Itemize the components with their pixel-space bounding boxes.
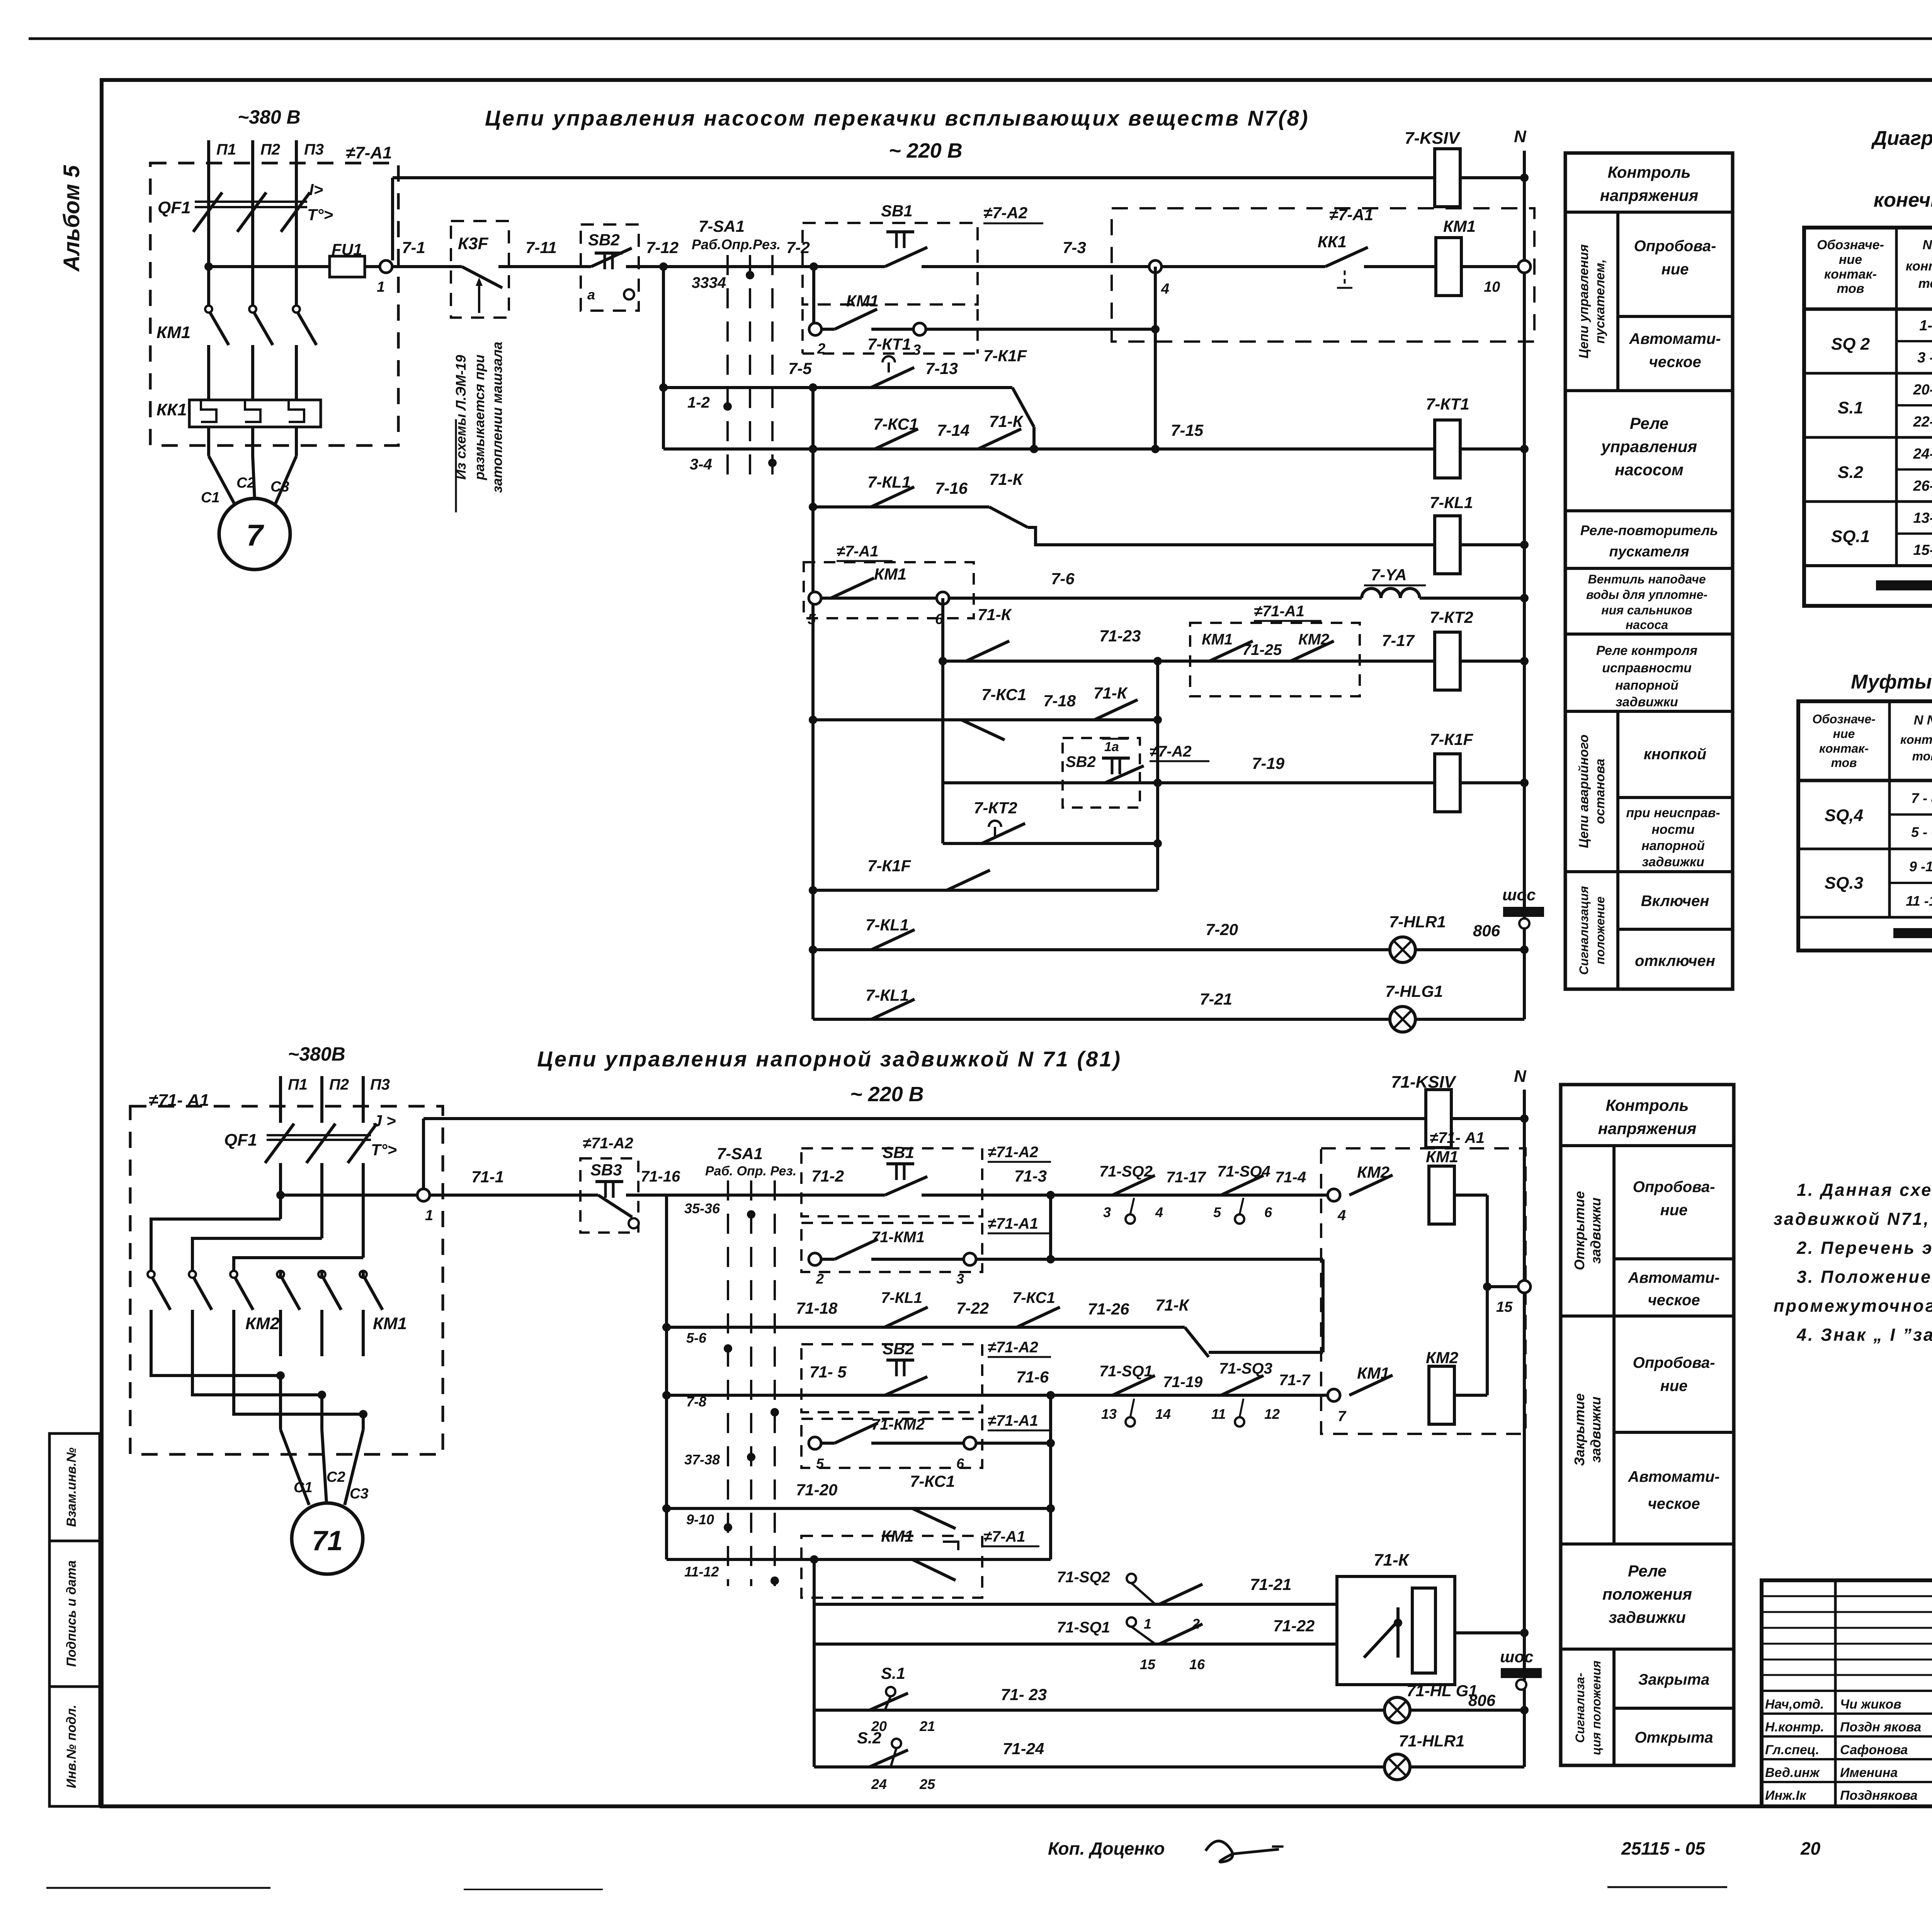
svg-text:12: 12 bbox=[1264, 1406, 1280, 1422]
cell Автоматическое закрытие bbox=[1561, 1542, 1734, 1546]
svg-text:≠71-А1: ≠71-А1 bbox=[1254, 603, 1304, 620]
node 4 bus vertical bbox=[1154, 267, 1157, 449]
svg-text:3 - 4: 3 - 4 bbox=[1917, 350, 1932, 366]
svg-text:тов: тов bbox=[1912, 749, 1932, 763]
svg-text:ния сальников: ния сальников bbox=[1601, 603, 1692, 617]
svg-text:задвижки: задвижки bbox=[1642, 855, 1704, 869]
cell Включен bbox=[1618, 928, 1733, 931]
svg-text:1: 1 bbox=[377, 279, 385, 295]
svg-text:QF1: QF1 bbox=[158, 198, 191, 217]
svg-text:N N: N N bbox=[1914, 713, 1932, 728]
svg-text:9-10: 9-10 bbox=[686, 1512, 714, 1527]
svg-text:КМ1: КМ1 bbox=[1202, 631, 1233, 648]
svg-text:71-КМ1: 71-КМ1 bbox=[871, 1229, 925, 1246]
dashed enclosure ≠7-A1 right bbox=[1112, 208, 1534, 342]
svg-text:конечных выключателей задв: конечных выключателей задвижки bbox=[1874, 189, 1932, 211]
tap from QF1 to node1 bbox=[281, 1194, 417, 1197]
wire row I KM1 interlock bbox=[667, 1558, 1051, 1561]
svg-text:≠71-А2: ≠71-А2 bbox=[988, 1339, 1038, 1356]
svg-text:Сигнализация: Сигнализация bbox=[1577, 886, 1591, 975]
svg-text:71-НLR1: 71-НLR1 bbox=[1399, 1732, 1464, 1750]
svg-text:7-12: 7-12 bbox=[646, 238, 679, 257]
svg-text:размыкается при: размыкается при bbox=[471, 355, 487, 481]
svg-text:Коп. Доценко: Коп. Доценко bbox=[1048, 1838, 1165, 1859]
svg-text:21: 21 bbox=[919, 1718, 935, 1734]
svg-text:71-К: 71-К bbox=[989, 412, 1024, 430]
svg-text:6: 6 bbox=[1264, 1204, 1272, 1220]
svg-text:задвижки: задвижки bbox=[1588, 1197, 1604, 1263]
svg-text:10: 10 bbox=[1484, 279, 1500, 295]
svg-text:Закрыта: Закрыта bbox=[1638, 1671, 1710, 1688]
row 5-6 KM1 to valve solenoid bbox=[813, 597, 989, 600]
svg-text:7-КТ1: 7-КТ1 bbox=[1426, 395, 1469, 413]
svg-text:71-К: 71-К bbox=[1155, 1296, 1190, 1314]
svg-text:71-SQ3: 71-SQ3 bbox=[1219, 1360, 1272, 1377]
wire row 7-19 emergency stop bbox=[943, 781, 1434, 784]
svg-text:71-23: 71-23 bbox=[1099, 627, 1141, 645]
page border top line bbox=[29, 37, 1932, 40]
phase stub П2 bbox=[251, 140, 254, 197]
svg-text:SB2: SB2 bbox=[1066, 753, 1096, 770]
table1 outline bbox=[1804, 228, 1932, 606]
svg-text:7-KSIV: 7-KSIV bbox=[1405, 129, 1461, 148]
cell Вентиль на подаче воды bbox=[1565, 633, 1733, 636]
left bus bottom schematic bbox=[665, 1195, 668, 1559]
svg-text:7: 7 bbox=[246, 518, 264, 552]
svg-text:71-18: 71-18 bbox=[796, 1299, 838, 1317]
link vertical x2719 rows F-I bbox=[1049, 1395, 1052, 1559]
cell Автоматическое открытие bbox=[1561, 1314, 1734, 1318]
svg-text:71-SQ1: 71-SQ1 bbox=[1099, 1363, 1153, 1380]
left bus2 vertical x2104 bbox=[811, 388, 815, 1019]
svg-text:3-4: 3-4 bbox=[690, 456, 712, 473]
svg-text:напорной: напорной bbox=[1615, 678, 1679, 693]
svg-text:воды для уплотне-: воды для уплотне- bbox=[1586, 588, 1708, 602]
svg-text:~ 220 В: ~ 220 В bbox=[850, 1083, 924, 1106]
svg-text:SВ1: SВ1 bbox=[883, 1143, 914, 1161]
signal bus vertical x2107 bbox=[813, 1559, 816, 1767]
svg-text:71-К: 71-К bbox=[1094, 684, 1128, 702]
svg-text:С2: С2 bbox=[327, 1469, 345, 1485]
wire row 7-K1F lower bbox=[809, 886, 817, 894]
phase stub П3 bbox=[295, 140, 298, 197]
svg-text:SB2: SB2 bbox=[588, 231, 620, 249]
node 2 bbox=[809, 323, 821, 335]
push button SB1 in dashed box ≠7-A2 bbox=[803, 223, 978, 304]
node 3 bbox=[913, 323, 926, 335]
svg-text:ние: ние bbox=[1833, 727, 1855, 741]
svg-text:71-17: 71-17 bbox=[1166, 1169, 1206, 1186]
svg-text:71-3: 71-3 bbox=[1014, 1167, 1047, 1185]
svg-text:2: 2 bbox=[816, 1271, 824, 1287]
svg-text:Взам.инв.№: Взам.инв.№ bbox=[64, 1447, 79, 1527]
bus from node 2 region vertical bbox=[812, 267, 815, 329]
svg-text:ческое: ческое bbox=[1649, 354, 1701, 371]
svg-text:71-1: 71-1 bbox=[471, 1168, 504, 1186]
svg-text:Открыта: Открыта bbox=[1634, 1729, 1713, 1746]
svg-text:14: 14 bbox=[1155, 1406, 1171, 1422]
svg-text:исправности: исправности bbox=[1602, 661, 1692, 675]
svg-text:Диаграммы: Диаграммы bbox=[1871, 127, 1932, 150]
svg-text:Автомати-: Автомати- bbox=[1628, 1269, 1719, 1286]
svg-text:7 - 8: 7 - 8 bbox=[1911, 790, 1932, 806]
dashed enclosure ≠7-A1 motor branch bbox=[150, 163, 398, 446]
svg-text:1- 2: 1- 2 bbox=[1919, 318, 1932, 334]
svg-text:–: – bbox=[1271, 1832, 1284, 1858]
svg-text:7-КL1: 7-КL1 bbox=[866, 916, 909, 934]
svg-text:Открытие: Открытие bbox=[1571, 1191, 1587, 1270]
svg-text:71-26: 71-26 bbox=[1088, 1300, 1129, 1318]
svg-text:71-2: 71-2 bbox=[811, 1167, 844, 1185]
table2 legend row bbox=[1798, 916, 1932, 919]
svg-text:N: N bbox=[1514, 127, 1527, 146]
svg-text:13-14: 13-14 bbox=[1913, 510, 1932, 526]
cell Закрыта bbox=[1614, 1707, 1734, 1710]
svg-text:Автомати-: Автомати- bbox=[1628, 1468, 1719, 1485]
svg-text:КМ2: КМ2 bbox=[245, 1314, 280, 1333]
svg-text:71-НL G1: 71-НL G1 bbox=[1406, 1682, 1478, 1700]
svg-text:насоса: насоса bbox=[1626, 618, 1668, 632]
svg-text:3: 3 bbox=[913, 342, 921, 358]
svg-text:7-16: 7-16 bbox=[935, 479, 968, 497]
svg-text:затоплении машзала: затоплении машзала bbox=[489, 342, 505, 493]
svg-text:П2: П2 bbox=[329, 1076, 349, 1093]
wire row L 71-23 closed lamp bbox=[814, 1709, 1524, 1712]
svg-text:7-14: 7-14 bbox=[937, 421, 969, 439]
riser from node 1 to upper bus bbox=[391, 178, 394, 260]
motor leads bottom bbox=[279, 1376, 282, 1430]
wire row 7-KT2 button bbox=[943, 842, 1158, 845]
push button SB2 1a in dashed box bbox=[1063, 738, 1140, 808]
svg-text:16: 16 bbox=[1189, 1656, 1205, 1672]
wire row A to selector bbox=[663, 265, 814, 268]
wire row M 71-24 open lamp bbox=[814, 1765, 1524, 1768]
svg-text:шос: шос bbox=[1500, 1648, 1533, 1666]
phase stubs bottom П1 П2 П3 bbox=[279, 1076, 282, 1123]
svg-text:Цепи управления напорной: Цепи управления напорной задвижкой N 71 … bbox=[537, 1047, 1122, 1071]
svg-text:≠71- А1: ≠71- А1 bbox=[149, 1091, 209, 1110]
svg-text:контак-: контак- bbox=[1824, 267, 1877, 282]
svg-text:SВ2: SВ2 bbox=[883, 1340, 914, 1358]
svg-text:тов: тов bbox=[1918, 276, 1932, 291]
svg-text:9 -10: 9 -10 bbox=[1909, 859, 1932, 874]
dashed box KM1 5-6 bbox=[804, 562, 974, 618]
margin stamp box Подпись и дата bbox=[49, 1541, 100, 1687]
node 4 on row A bbox=[1149, 260, 1162, 273]
cell Опробование 1 bbox=[1618, 315, 1733, 318]
dashed enclosure ≠71-A1 motor branch bbox=[130, 1106, 443, 1454]
svg-text:С3: С3 bbox=[270, 479, 289, 495]
svg-text:7-2: 7-2 bbox=[786, 238, 810, 257]
svg-text:Поздн якова: Поздн якова bbox=[1840, 1720, 1921, 1734]
svg-text:7-YA: 7-YA bbox=[1371, 566, 1407, 584]
motor M 71 bbox=[292, 1503, 363, 1574]
svg-text:SQ.3: SQ.3 bbox=[1825, 874, 1863, 893]
svg-text:806: 806 bbox=[1473, 922, 1500, 940]
svg-text:3: 3 bbox=[956, 1271, 964, 1287]
svg-text:КМ1: КМ1 bbox=[846, 292, 879, 310]
dashed box ≠71-A1 KM1 KM2 bbox=[1190, 623, 1360, 696]
svg-text:7-КС1: 7-КС1 bbox=[1012, 1289, 1055, 1306]
svg-text:35-36: 35-36 bbox=[684, 1201, 720, 1216]
svg-text:Вентиль наподаче: Вентиль наподаче bbox=[1588, 572, 1706, 586]
svg-text:П2: П2 bbox=[260, 141, 280, 158]
push button SB3 in dashed box bbox=[580, 1158, 638, 1233]
svg-text:SQ 2: SQ 2 bbox=[1831, 335, 1870, 354]
node 7 bbox=[1328, 1389, 1340, 1401]
svg-text:71-SQ1: 71-SQ1 bbox=[1057, 1619, 1110, 1636]
table1 sub row lines bbox=[1896, 340, 1932, 342]
svg-text:задвижки: задвижки bbox=[1609, 1608, 1686, 1626]
svg-text:S.2: S.2 bbox=[857, 1729, 881, 1747]
rotated cell Цепи аварийного останова bbox=[1616, 711, 1619, 872]
svg-text:S.2: S.2 bbox=[1838, 463, 1864, 482]
svg-text:контак-: контак- bbox=[1819, 741, 1869, 755]
svg-text:71-24: 71-24 bbox=[1003, 1740, 1044, 1758]
cell Опробование открытие bbox=[1614, 1257, 1734, 1260]
svg-text:7-К1F: 7-К1F bbox=[867, 857, 912, 875]
rotated cell Открытие задвижки bbox=[1612, 1146, 1616, 1316]
svg-text:Гл.спец.: Гл.спец. bbox=[1765, 1743, 1819, 1757]
svg-text:Опробова-: Опробова- bbox=[1633, 1354, 1715, 1371]
svg-text:7-КL1: 7-КL1 bbox=[881, 1289, 922, 1306]
svg-text:71-22: 71-22 bbox=[1273, 1617, 1315, 1635]
svg-text:71-SQ2: 71-SQ2 bbox=[1099, 1163, 1153, 1180]
svg-text:20: 20 bbox=[1800, 1838, 1821, 1859]
svg-text:~ 220 В: ~ 220 В bbox=[889, 139, 963, 162]
svg-text:КМ1: КМ1 bbox=[881, 1527, 913, 1545]
dashed box KM1 row I bbox=[801, 1536, 982, 1598]
svg-text:ческое: ческое bbox=[1648, 1292, 1700, 1309]
svg-text:SB3: SB3 bbox=[590, 1161, 622, 1179]
svg-text:напорной: напорной bbox=[1641, 838, 1705, 853]
cell Реле положения задвижки bbox=[1561, 1648, 1734, 1651]
wire row 7-20 lamp red bbox=[809, 945, 817, 954]
table1 group separators bbox=[1804, 372, 1932, 375]
phase stub П1 bbox=[207, 140, 210, 197]
svg-text:ние: ние bbox=[1660, 1377, 1688, 1394]
node 5 bottom bbox=[809, 1437, 821, 1449]
wire 71-1 to SB3 bbox=[430, 1194, 580, 1197]
svg-text:7-К1F: 7-К1F bbox=[1430, 730, 1474, 748]
node 15 bbox=[1518, 1280, 1531, 1293]
table1 column lines bbox=[1895, 228, 1898, 566]
svg-text:6: 6 bbox=[956, 1456, 964, 1471]
node 1 bottom bbox=[417, 1189, 430, 1201]
svg-text:NN: NN bbox=[1922, 238, 1932, 252]
svg-text:≠71-А1: ≠71-А1 bbox=[988, 1412, 1038, 1429]
svg-text:тов: тов bbox=[1837, 281, 1864, 296]
svg-text:7-11: 7-11 bbox=[526, 238, 557, 257]
svg-text:7: 7 bbox=[1338, 1408, 1347, 1425]
svg-text:7-КТ1: 7-КТ1 bbox=[867, 335, 911, 353]
svg-text:Автомати-: Автомати- bbox=[1629, 330, 1721, 347]
function column top outline bbox=[1565, 153, 1733, 989]
node 6 bbox=[937, 592, 949, 604]
svg-text:2. Перечень элементов привед: 2. Перечень элементов приведен на один н… bbox=[1796, 1238, 1932, 1258]
svg-text:71-25: 71-25 bbox=[1242, 641, 1282, 658]
svg-text:7-КС1: 7-КС1 bbox=[981, 685, 1026, 704]
coil link vertical to node 15 bbox=[1486, 1195, 1489, 1395]
cell Контроль напряжения 2 bbox=[1561, 1144, 1734, 1147]
svg-text:7-НLR1: 7-НLR1 bbox=[1389, 913, 1446, 931]
wire row 7-18 bbox=[809, 716, 817, 724]
svg-text:Реле-повторитель: Реле-повторитель bbox=[1580, 522, 1718, 538]
rotated cell Цепи управления пускателем bbox=[1616, 212, 1619, 391]
svg-text:7-КL1: 7-КL1 bbox=[867, 473, 911, 491]
wire row B upper bus bottom schematic bbox=[423, 1117, 1426, 1120]
overvoltage relay contact K3F in dashed box bbox=[451, 221, 509, 318]
svg-text:ности: ности bbox=[1651, 822, 1694, 837]
svg-text:7-6: 7-6 bbox=[1051, 570, 1075, 588]
svg-text:≠71- А1: ≠71- А1 bbox=[1430, 1129, 1485, 1146]
cell Реле контроля исправности bbox=[1565, 710, 1733, 713]
svg-text:С1: С1 bbox=[201, 490, 220, 506]
svg-text:Реле контроля: Реле контроля bbox=[1596, 643, 1697, 658]
wire row C open valve bbox=[667, 1194, 885, 1197]
wire row 7-17 valve check relay bbox=[939, 657, 947, 665]
svg-text:Позднякова: Позднякова bbox=[1840, 1788, 1918, 1803]
svg-text:Обозначе-: Обозначе- bbox=[1812, 712, 1876, 726]
svg-text:≠7-A1: ≠7-A1 bbox=[1329, 206, 1373, 224]
upper bus to 7-KSIV bbox=[393, 176, 1434, 179]
svg-text:Сигнализа-: Сигнализа- bbox=[1573, 1673, 1587, 1743]
wire row 3-4 / 7-14 / 7-15 bbox=[663, 447, 1434, 451]
cell Контроль напряжения bbox=[1565, 211, 1733, 214]
svg-text:Инв.№ подл.: Инв.№ подл. bbox=[64, 1705, 79, 1789]
rotated cell Закрытие задвижки bbox=[1612, 1316, 1616, 1544]
svg-text:13: 13 bbox=[1101, 1406, 1117, 1422]
svg-text:11-12: 11-12 bbox=[684, 1564, 719, 1580]
svg-text:КМ1: КМ1 bbox=[373, 1314, 407, 1333]
svg-text:QF1: QF1 bbox=[224, 1131, 257, 1150]
motor leads to motor 7 bbox=[209, 456, 236, 506]
svg-text:71-16: 71-16 bbox=[641, 1168, 680, 1185]
svg-text:5: 5 bbox=[1213, 1204, 1221, 1220]
svg-text:4: 4 bbox=[1155, 1204, 1163, 1220]
table2 column lines bbox=[1888, 701, 1891, 917]
svg-text:7-13: 7-13 bbox=[925, 359, 958, 377]
svg-text:1: 1 bbox=[1144, 1616, 1151, 1632]
wire row K 71-22 bbox=[814, 1643, 1337, 1646]
svg-text:Подпись и дата: Подпись и дата bbox=[64, 1560, 79, 1667]
svg-text:15: 15 bbox=[1496, 1299, 1513, 1315]
wire row J 71-21 bbox=[814, 1603, 1337, 1606]
svg-text:ние: ние bbox=[1660, 1202, 1688, 1219]
svg-text:а: а bbox=[587, 287, 595, 303]
svg-text:7-SA1: 7-SA1 bbox=[699, 217, 745, 235]
svg-text:пускателем,: пускателем, bbox=[1593, 259, 1607, 343]
svg-text:Раб. Опр. Рез.: Раб. Опр. Рез. bbox=[705, 1164, 796, 1178]
svg-text:7-20: 7-20 bbox=[1206, 920, 1238, 939]
left bus from 7-12 vertical bbox=[662, 267, 665, 449]
svg-text:К3F: К3F bbox=[458, 234, 489, 253]
svg-text:71-20: 71-20 bbox=[796, 1481, 837, 1499]
node 4 bottom bbox=[1328, 1189, 1340, 1201]
svg-text:≠71-А2: ≠71-А2 bbox=[988, 1144, 1038, 1161]
table2 outline bbox=[1798, 701, 1932, 951]
svg-text:Включен: Включен bbox=[1641, 893, 1709, 910]
svg-text:5 - 6: 5 - 6 bbox=[1911, 824, 1932, 840]
svg-text:71-4: 71-4 bbox=[1275, 1169, 1306, 1186]
svg-text:Опробова-: Опробова- bbox=[1634, 238, 1716, 255]
svg-text:11: 11 bbox=[1211, 1406, 1226, 1422]
svg-text:25115 - 05: 25115 - 05 bbox=[1621, 1838, 1706, 1859]
wire row 1-2 / 7-5 bbox=[663, 386, 1012, 389]
svg-text:С2: С2 bbox=[236, 475, 255, 491]
svg-text:7-SА1: 7-SА1 bbox=[717, 1144, 763, 1163]
svg-text:N: N bbox=[1514, 1067, 1527, 1086]
wire row A main control bbox=[209, 265, 330, 268]
svg-text:4: 4 bbox=[1337, 1207, 1346, 1224]
rotated cell Сигнализация положения bbox=[1612, 1649, 1616, 1765]
svg-text:С3: С3 bbox=[350, 1486, 369, 1502]
svg-text:Вед.инж: Вед.инж bbox=[1765, 1765, 1820, 1780]
svg-text:1: 1 bbox=[425, 1207, 433, 1224]
wire row F close valve bbox=[662, 1391, 671, 1399]
svg-text:КМ2: КМ2 bbox=[1426, 1348, 1458, 1367]
svg-text:напряжения: напряжения bbox=[1598, 1119, 1697, 1138]
svg-text:7-КТ2: 7-КТ2 bbox=[974, 799, 1017, 817]
svg-text:задвижкой N71, для насоса N: задвижкой N71, для насоса N8 схема анало… bbox=[1774, 1209, 1932, 1229]
rotated cell Сигнализация положение bbox=[1616, 872, 1619, 989]
svg-text:КК1: КК1 bbox=[156, 400, 187, 419]
svg-text:7-22: 7-22 bbox=[956, 1299, 989, 1317]
svg-text:806: 806 bbox=[1468, 1691, 1496, 1709]
svg-text:7-К1F: 7-К1F bbox=[983, 347, 1027, 365]
svg-text:Реле: Реле bbox=[1628, 1562, 1667, 1580]
svg-text:контак-: контак- bbox=[1906, 259, 1932, 274]
svg-text:кнопкой: кнопкой bbox=[1644, 746, 1706, 763]
svg-text:24: 24 bbox=[871, 1776, 887, 1792]
push button SB2 in dashed box bbox=[581, 224, 639, 311]
svg-text:≠7-A1: ≠7-A1 bbox=[346, 143, 392, 162]
svg-text:37-38: 37-38 bbox=[684, 1452, 720, 1467]
title block name rows bbox=[1762, 1690, 1932, 1692]
row D link vertical bbox=[1049, 1195, 1052, 1259]
svg-text:отключен: отключен bbox=[1635, 952, 1715, 969]
table1 header row bbox=[1804, 308, 1932, 311]
svg-text:24-25: 24-25 bbox=[1913, 446, 1932, 462]
svg-text:7-17: 7-17 bbox=[1382, 631, 1415, 650]
svg-text:7-19: 7-19 bbox=[1252, 754, 1285, 772]
junction row 2-3 on node4 bus bbox=[1151, 325, 1160, 333]
KM2 bank return crossover bbox=[151, 1356, 281, 1376]
svg-text:Обозначе-: Обозначе- bbox=[1817, 238, 1884, 252]
svg-text:≠71-А1: ≠71-А1 bbox=[988, 1215, 1038, 1232]
table1 legend row bbox=[1804, 564, 1932, 567]
svg-text:Цепи управления: Цепи управления bbox=[1577, 244, 1591, 359]
svg-text:7-18: 7-18 bbox=[1043, 692, 1076, 710]
svg-text:П3: П3 bbox=[370, 1076, 390, 1093]
svg-text:SQ,4: SQ,4 bbox=[1825, 806, 1863, 825]
svg-text:останова: останова bbox=[1593, 758, 1607, 824]
dashed enclosure ≠71-A1 contactor block bbox=[1321, 1148, 1526, 1434]
right link vertical x2996 bbox=[1156, 661, 1159, 890]
svg-text:SB1: SB1 bbox=[881, 202, 913, 220]
svg-text:Нач,отд.: Нач,отд. bbox=[1765, 1697, 1824, 1712]
svg-text:задвижки: задвижки bbox=[1616, 695, 1678, 709]
svg-text:11 -12: 11 -12 bbox=[1906, 893, 1932, 909]
svg-text:25: 25 bbox=[919, 1776, 935, 1792]
svg-text:Цепи управления насосом пе: Цепи управления насосом перекачки всплыв… bbox=[485, 106, 1310, 130]
phase wire L2 vertical bbox=[251, 197, 254, 307]
svg-text:22-23: 22-23 bbox=[1913, 414, 1932, 430]
svg-text:7-НLG1: 7-НLG1 bbox=[1385, 982, 1443, 1000]
svg-text:≠71-А2: ≠71-А2 bbox=[583, 1135, 633, 1152]
svg-text:71-К: 71-К bbox=[989, 470, 1024, 488]
svg-text:при неисправ-: при неисправ- bbox=[1626, 806, 1720, 820]
